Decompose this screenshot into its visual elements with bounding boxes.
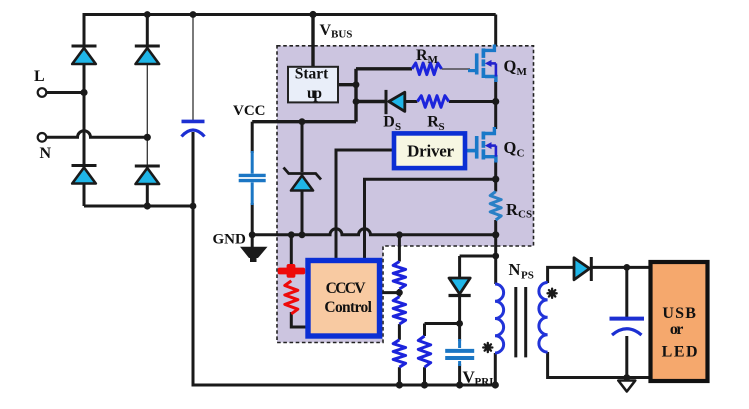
svg-text:L: L <box>34 68 45 85</box>
svg-text:PS: PS <box>521 270 534 282</box>
svg-text:S: S <box>439 121 445 133</box>
svg-text:CCCV: CCCV <box>326 280 367 297</box>
svg-text:PRI: PRI <box>475 376 494 388</box>
svg-text:C: C <box>517 148 525 160</box>
svg-text:Q: Q <box>504 138 517 157</box>
svg-text:M: M <box>428 54 439 66</box>
svg-text:up: up <box>307 85 322 102</box>
svg-text:R: R <box>416 47 428 64</box>
svg-text:M: M <box>517 66 528 78</box>
svg-text:Q: Q <box>504 57 517 76</box>
svg-text:R: R <box>427 114 439 131</box>
svg-text:Start: Start <box>295 66 329 83</box>
svg-text:BUS: BUS <box>331 29 352 41</box>
svg-text:VCC: VCC <box>233 103 266 119</box>
svg-text:S: S <box>395 121 401 133</box>
svg-text:LED: LED <box>662 344 698 361</box>
svg-text:GND: GND <box>213 232 247 248</box>
svg-text:V: V <box>320 22 332 39</box>
svg-text:N: N <box>40 145 52 162</box>
svg-text:D: D <box>383 114 395 131</box>
svg-text:USB: USB <box>662 305 696 322</box>
svg-text:Control: Control <box>324 299 372 316</box>
svg-text:N: N <box>509 260 521 279</box>
svg-text:CS: CS <box>518 209 532 221</box>
svg-text:Driver: Driver <box>407 142 454 161</box>
svg-text:or: or <box>670 321 684 338</box>
